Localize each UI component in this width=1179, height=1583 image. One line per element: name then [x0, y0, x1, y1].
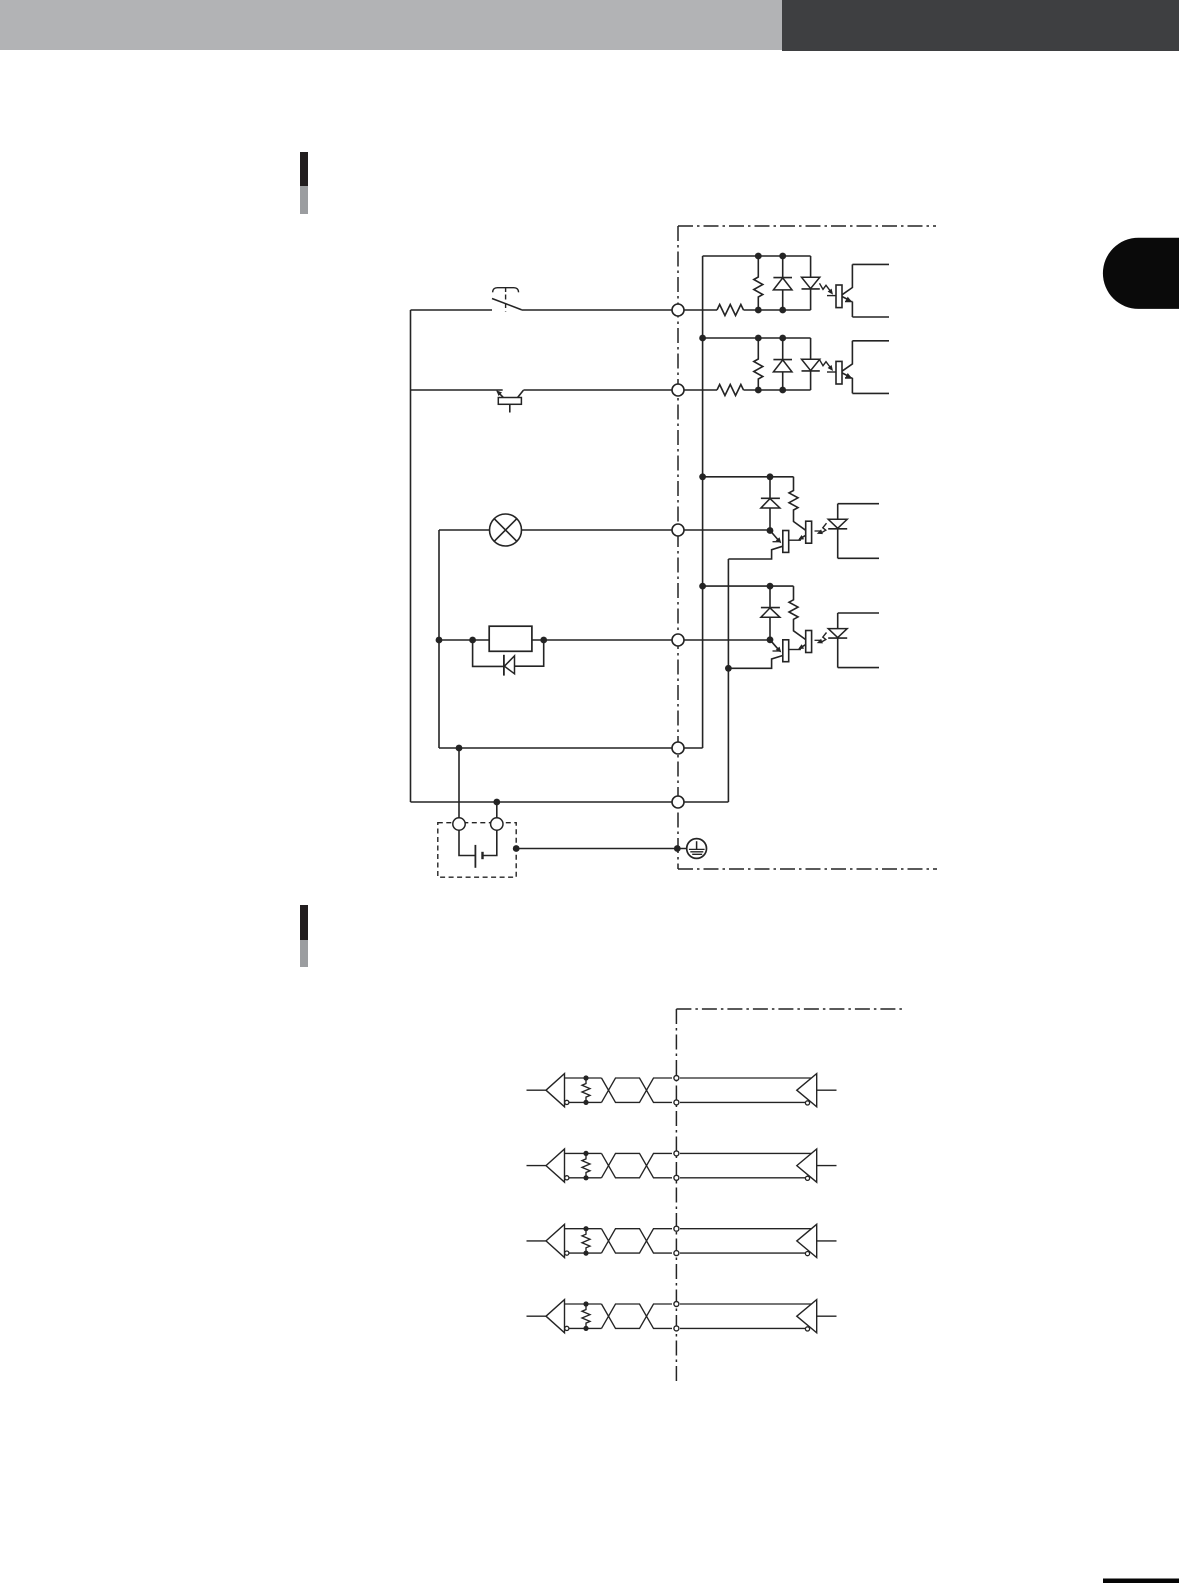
- lower dash-dot border top: [676, 1008, 903, 1010]
- wire lamp branch vertical: [438, 530, 440, 748]
- wires terminals to driver row 3: [680, 1228, 811, 1230]
- wires terminals to driver row 4: [680, 1303, 811, 1305]
- opto light arrow input 1: [820, 283, 832, 292]
- twisted pair row 2: [602, 1153, 673, 1177]
- controller dash-dot border left: [677, 226, 679, 869]
- battery terminal circles: [453, 818, 465, 830]
- output circuit 1 rail: [703, 476, 794, 478]
- driver amp row 4: [797, 1300, 817, 1333]
- terminating resistor row 1: [582, 1078, 590, 1102]
- resistor base output 2: [789, 586, 806, 640]
- resistor base output 1: [789, 477, 806, 531]
- wire relay to terminal 4: [532, 639, 770, 641]
- terminal circles row 2: [674, 1151, 679, 1156]
- output circuit 2 rail: [703, 585, 794, 587]
- input circuit 1 rail: [703, 255, 811, 257]
- resistor series input2: [717, 385, 744, 396]
- terminating resistor row 3: [582, 1229, 590, 1253]
- wires terminals to driver row 1: [680, 1077, 811, 1079]
- opto light arrow output 2: [821, 633, 827, 643]
- terminal circles row 1: [674, 1076, 679, 1081]
- diode clamp output 2: [769, 586, 771, 608]
- terminating resistor row 2: [582, 1153, 590, 1177]
- wires to resistor row 2: [565, 1152, 602, 1154]
- diode clamp output 1: [769, 477, 771, 499]
- wire internal +rail bus: [702, 256, 704, 748]
- junction emitter bus output2: [725, 665, 732, 672]
- twisted pair row 4: [602, 1304, 673, 1328]
- section marker 2 dark: [300, 905, 308, 940]
- terminal CN pin 4: [672, 634, 684, 646]
- terminal CN pin 6: [672, 796, 684, 808]
- lower dash-dot border left: [675, 1009, 677, 1385]
- transistor Q1 (open collector NPN): [497, 391, 503, 397]
- output circuit 2: [699, 583, 879, 669]
- opto phototransistor input 1: [836, 285, 842, 308]
- receiver amp row 4: [527, 1315, 547, 1317]
- wire internal emitter bus: [727, 559, 729, 802]
- terminating resistor row 4: [582, 1304, 590, 1328]
- controller dash-dot border top: [678, 225, 936, 227]
- bottom right footer bar: [1103, 1579, 1179, 1583]
- wire resistor to LED bottom rail input2: [744, 389, 811, 391]
- opto light arrow input 2: [820, 360, 832, 369]
- wire switch to terminal 1: [522, 309, 718, 311]
- opto phototransistor output 1: [806, 521, 812, 543]
- junction relay left: [436, 637, 443, 644]
- lamp L1: [490, 514, 522, 546]
- terminal CN pin 2: [672, 384, 684, 396]
- relay coil K1: [489, 626, 532, 651]
- opto phototransistor output 2: [806, 631, 812, 653]
- wire transistor to terminal 2: [523, 389, 717, 391]
- terminal circles row 3: [674, 1226, 679, 1231]
- output bracket input 2: [852, 340, 889, 342]
- opto phototransistor input 2: [836, 361, 842, 384]
- wire resistor to LED bottom rail input1: [744, 309, 811, 311]
- output bracket input 1: [852, 263, 889, 265]
- opto LED input 2: [810, 338, 812, 359]
- output circuit 1: [699, 473, 879, 559]
- driver amp row 2: [797, 1149, 817, 1182]
- wire lamp left: [439, 529, 490, 531]
- transistor output 1: [783, 531, 789, 553]
- driver amp row 3: [797, 1224, 817, 1257]
- receiver amp row 1: [527, 1089, 547, 1091]
- wire left vertical bus: [410, 310, 412, 802]
- opto light arrow output 1: [821, 523, 827, 533]
- junction dots input 1: [755, 253, 762, 260]
- output bracket output 2: [838, 612, 879, 614]
- resistor pull input 1: [754, 256, 763, 310]
- opto LED input 1: [810, 256, 812, 277]
- receiver amp row 3: [527, 1240, 547, 1242]
- terminal circles row 4: [674, 1302, 679, 1307]
- wire common to terminal 5: [439, 747, 703, 749]
- battery dashed enclosure: [438, 823, 516, 878]
- section marker 2 gray: [300, 940, 308, 967]
- terminal CN pin 5: [672, 742, 684, 754]
- twisted pair row 3: [602, 1229, 673, 1253]
- opto LED output 1: [837, 504, 839, 520]
- wire battery branch 1: [458, 748, 460, 818]
- protective earth symbol: [687, 839, 707, 859]
- wire battery branch 2: [496, 802, 498, 818]
- section marker 1 gray: [300, 186, 308, 214]
- wires to resistor row 3: [565, 1228, 602, 1230]
- twisted pair row 1: [602, 1078, 673, 1102]
- transistor output 2: [783, 640, 789, 662]
- junction rail input2: [699, 335, 706, 342]
- right edge chapter tab: [1103, 238, 1179, 309]
- section marker 1 dark: [300, 152, 308, 186]
- wire battery to ground: [516, 848, 686, 850]
- resistor pull input 2: [754, 338, 763, 390]
- wires terminals to driver row 2: [680, 1152, 811, 1154]
- controller dash-dot border bottom: [678, 868, 937, 870]
- wire input2 left segment: [411, 389, 503, 391]
- driver amp row 1: [797, 1074, 817, 1107]
- opto LED output 2: [837, 613, 839, 629]
- header light gray bar: [0, 0, 782, 50]
- flyback diode D5: [473, 640, 503, 666]
- receiver amp row 2: [527, 1165, 547, 1167]
- wires to resistor row 1: [565, 1077, 602, 1079]
- header dark gray bar: [782, 0, 1179, 51]
- output bracket output 1: [838, 503, 879, 505]
- diode surge input 2: [782, 338, 784, 360]
- input circuit 2 rail: [703, 337, 811, 339]
- battery B1: [459, 830, 475, 856]
- diode surge input 1: [782, 256, 784, 278]
- wire input1 to switch: [411, 309, 493, 311]
- terminal CN pin 3: [672, 524, 684, 536]
- terminal CN pin 1: [672, 304, 684, 316]
- wire common to terminal 6: [411, 801, 729, 803]
- wire lamp to terminal 3: [522, 529, 771, 531]
- wire relay left: [439, 639, 489, 641]
- junction dots input 2: [755, 335, 762, 342]
- junction dots output 1: [699, 473, 706, 480]
- switch SW1 (limit switch contact): [492, 299, 522, 310]
- junction dots output 2: [699, 583, 706, 590]
- wires to resistor row 4: [565, 1303, 602, 1305]
- resistor series input1: [717, 305, 744, 316]
